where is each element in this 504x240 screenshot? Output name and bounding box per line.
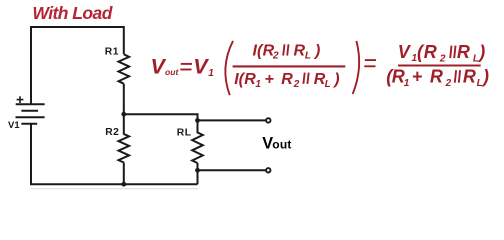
fraction 2 bar (398, 64, 481, 66)
svg-text:2: 2 (445, 78, 452, 89)
wire: battery - down, bottom rail to RL (31, 124, 198, 184)
svg-text:): ) (481, 67, 489, 87)
svg-text:out: out (272, 137, 291, 151)
node C junction dot (RL top tap) (195, 118, 200, 123)
fraction 1 numerator I(R2||RL) (253, 43, 321, 62)
big right parenthesis (353, 41, 359, 94)
fraction 2 numerator V1(R2||RL) (398, 42, 485, 65)
battery plus sign (17, 96, 24, 103)
svg-text:R: R (463, 67, 476, 87)
svg-text:L: L (325, 79, 331, 90)
svg-text:1: 1 (404, 78, 410, 89)
svg-text:V: V (193, 55, 209, 79)
battery V1 plates (16, 104, 45, 124)
equals sign 1 (180, 64, 192, 70)
svg-text:1: 1 (208, 68, 214, 79)
svg-text:1: 1 (255, 79, 261, 90)
resistor R1 (119, 54, 130, 83)
resistor RL with leads (192, 120, 203, 184)
label Vout (262, 134, 291, 152)
svg-text:out: out (165, 67, 179, 77)
svg-text:): ) (477, 42, 485, 62)
node A junction dot (121, 112, 126, 117)
svg-text:2: 2 (439, 54, 446, 65)
resistor R2 with leads (119, 114, 130, 184)
node D junction dot (RL bottom tap) (195, 168, 200, 173)
svg-text:2: 2 (293, 79, 300, 90)
faint artifact line under bottom rail (31, 188, 198, 190)
wire R1 bottom to node A (123, 84, 125, 115)
svg-text:R2: R2 (105, 127, 119, 138)
fraction 1 denominator I(R1+R2||RL) (234, 71, 339, 90)
svg-text:R: R (281, 71, 293, 88)
svg-text:): ) (332, 71, 339, 88)
svg-text:): ) (313, 43, 320, 60)
equals sign 2 (364, 60, 376, 66)
wire node C to top terminal (198, 119, 266, 121)
svg-text:R: R (294, 43, 306, 60)
fraction 2 denominator (R1+R2||RL) (386, 67, 489, 89)
wire node A to RL branch corner (124, 114, 198, 120)
svg-text:V1: V1 (8, 120, 20, 131)
svg-text:L: L (477, 78, 483, 89)
svg-text:R1: R1 (105, 47, 119, 58)
svg-text:R: R (430, 67, 443, 87)
svg-text:2: 2 (272, 51, 279, 62)
fraction 1 bar (233, 65, 346, 67)
svg-text:L: L (473, 54, 479, 65)
formula Vout = V1 (I(R2||RL)/I(R1+R2||RL)) (151, 55, 215, 79)
wire node D to bottom terminal (198, 169, 266, 171)
svg-text:+: + (412, 67, 423, 87)
top output terminal (266, 118, 270, 122)
node B junction dot (R2 bottom) (121, 182, 126, 187)
svg-text:R: R (424, 42, 437, 62)
svg-text:RL: RL (177, 128, 192, 139)
big left parenthesis (225, 41, 233, 95)
wire: battery + up, across top, down to R1 (31, 27, 124, 104)
svg-text:R: R (457, 42, 470, 62)
svg-text:With Load: With Load (32, 3, 112, 23)
bottom output terminal (266, 168, 270, 172)
svg-text:+: + (265, 71, 274, 88)
svg-text:V: V (398, 42, 412, 62)
svg-text:L: L (305, 51, 311, 62)
